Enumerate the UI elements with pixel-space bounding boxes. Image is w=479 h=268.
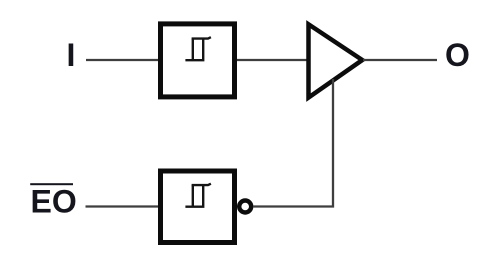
wire EO to Schmitt inverter input	[86, 205, 161, 207]
Schmitt trigger inverter box U2	[161, 171, 235, 243]
tri-state output buffer (triangle)	[309, 24, 363, 97]
inversion bubble on U2 output	[239, 201, 251, 213]
wire I to Schmitt buffer input	[86, 59, 160, 61]
hysteresis symbol in U2	[185, 184, 211, 207]
svg-text:I: I	[67, 37, 76, 73]
Schmitt trigger buffer box U1	[161, 24, 235, 97]
wire buffer output to O	[363, 59, 437, 61]
svg-text:O: O	[445, 37, 470, 73]
wire bubble to buffer enable pin (L-shaped)	[253, 79, 333, 207]
svg-text:EO: EO	[31, 184, 77, 220]
wire U1 output to tri-state buffer input	[237, 59, 309, 61]
overline over EO	[30, 183, 73, 185]
hysteresis symbol in U1	[185, 37, 211, 60]
